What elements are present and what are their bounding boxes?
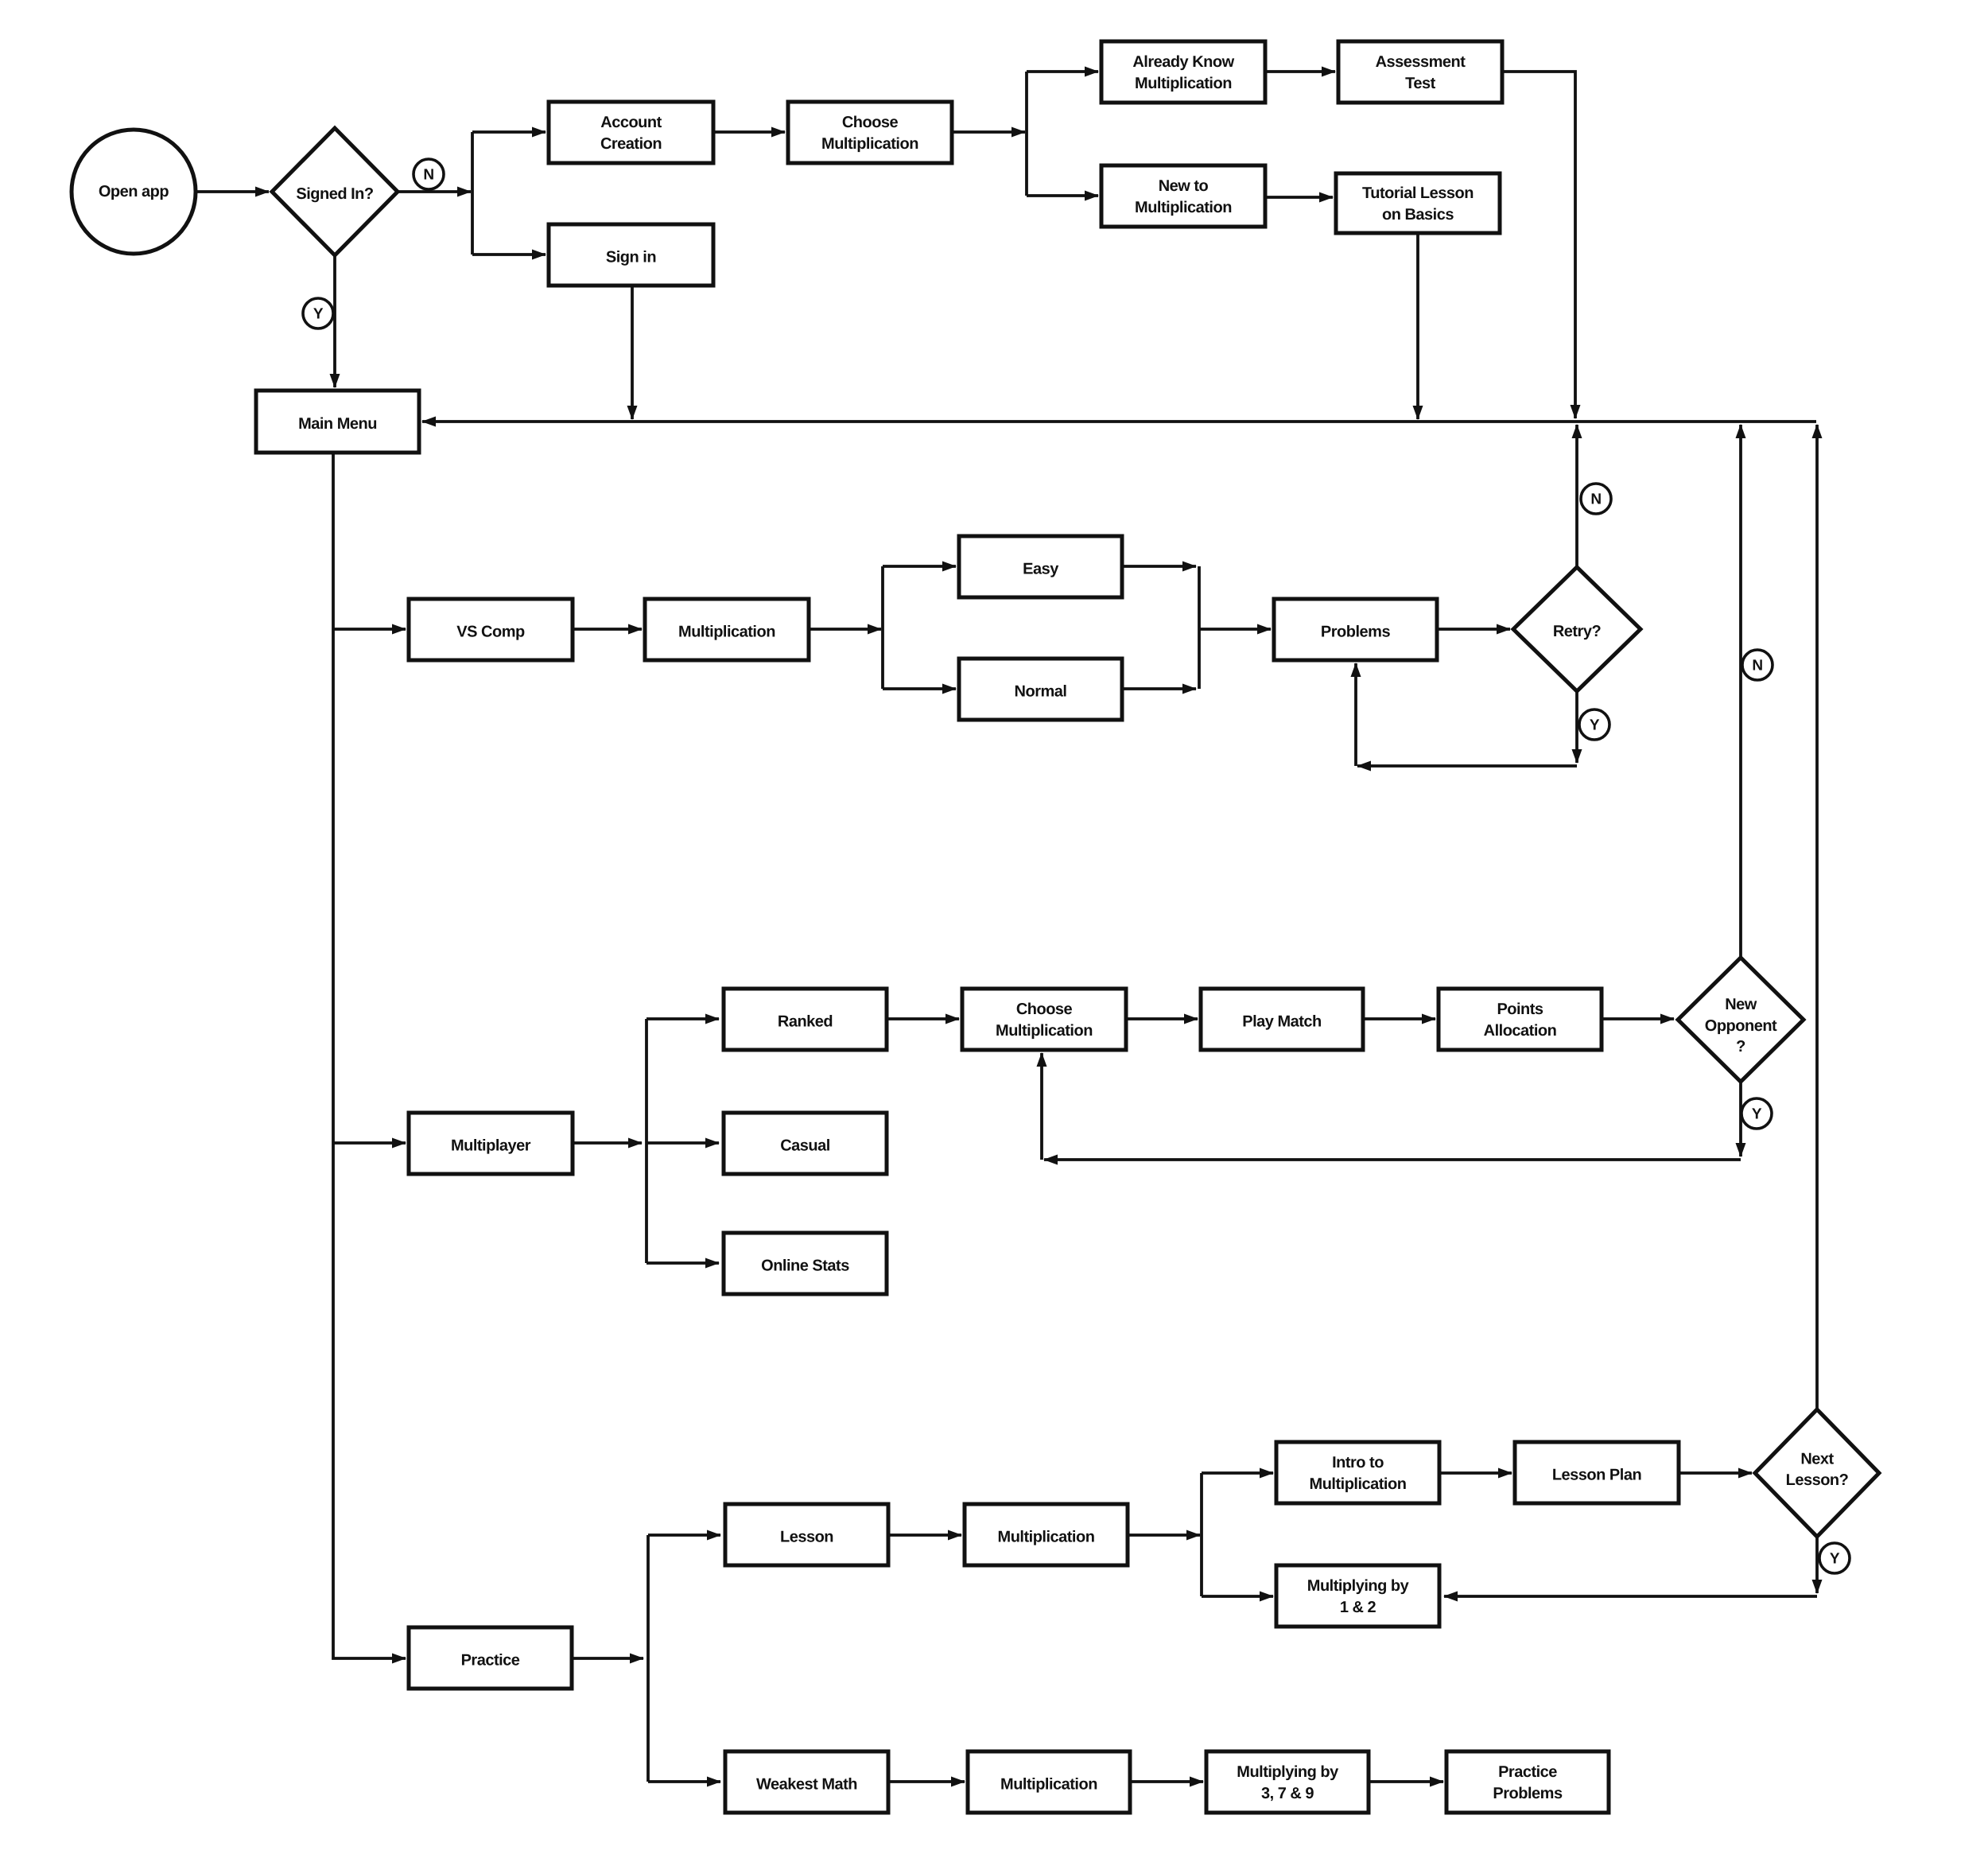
- process: Choose Multiplication (multiplayer): [962, 989, 1126, 1050]
- wire: split to Weakest Math: [648, 1780, 720, 1783]
- wire: main return rail into Main Menu: [422, 420, 1816, 423]
- svg-text:Intro to: Intro to: [1332, 1454, 1384, 1471]
- svg-text:Sign in: Sign in: [606, 249, 656, 266]
- svg-text:Practice: Practice: [461, 1652, 520, 1669]
- process: Multiplication (VS Comp row): [645, 599, 809, 660]
- svg-text:Allocation: Allocation: [1484, 1022, 1557, 1040]
- wire: split to Easy: [883, 565, 956, 568]
- svg-text:Already Know: Already Know: [1132, 53, 1234, 71]
- wire: Multiplication to difficulty split: [809, 628, 881, 631]
- wire: join to Problems: [1199, 628, 1271, 631]
- svg-text:Points: Points: [1497, 1001, 1543, 1018]
- wire: split to Ranked: [646, 1017, 719, 1020]
- svg-text:Choose: Choose: [1016, 1001, 1073, 1018]
- process: Practice Problems: [1446, 1751, 1609, 1813]
- label Y on Next Lesson? yes-branch: [1819, 1543, 1850, 1573]
- svg-text:Multiplication: Multiplication: [996, 1022, 1093, 1040]
- wire: Intro to Lesson Plan: [1439, 1471, 1512, 1475]
- wire: split vertical (account/sign-in): [471, 132, 474, 255]
- wire: New Opponent? N up to main rail: [1739, 425, 1742, 958]
- wire: Sign in down to main rail: [631, 286, 634, 419]
- process: Multiplication (weakest row): [968, 1751, 1130, 1813]
- wire: New Opponent? Y down from diamond: [1739, 1082, 1742, 1156]
- svg-text:Lesson?: Lesson?: [1786, 1471, 1849, 1489]
- label Y on New Opponent? yes-branch: [1741, 1098, 1772, 1129]
- wire: trunk to Multiplayer: [333, 1141, 406, 1145]
- wire: Easy to join: [1122, 565, 1196, 568]
- process: Multiplying by 3, 7 & 9: [1206, 1751, 1369, 1813]
- decision D4: Next Lesson?: [1755, 1409, 1879, 1537]
- wire: Multiplication to lesson split: [1128, 1533, 1200, 1537]
- process: Play Match: [1201, 989, 1363, 1050]
- wire: Retry? Y down from diamond: [1575, 691, 1578, 763]
- wire: lesson split vertical: [1200, 1473, 1203, 1596]
- wire: Multiplying 3,7,9 to Practice Problems: [1369, 1780, 1443, 1783]
- process: Multiplying by 1 & 2: [1276, 1565, 1439, 1627]
- wire: Main Menu trunk down with corner to Practice: [333, 453, 406, 1658]
- wire: split to Account Creation: [472, 130, 546, 134]
- label Y on Signed In? yes-branch: [303, 298, 333, 328]
- svg-text:Casual: Casual: [780, 1137, 830, 1155]
- svg-text:Play Match: Play Match: [1242, 1013, 1321, 1031]
- process: Sign in: [549, 224, 713, 286]
- svg-text:Problems: Problems: [1321, 624, 1391, 641]
- process: Already Know Multiplication: [1101, 41, 1265, 103]
- wire: split to Casual: [646, 1141, 719, 1145]
- wire: Lesson to Multiplication: [888, 1533, 961, 1537]
- wire: mode split vertical: [645, 1019, 648, 1263]
- process: Lesson: [725, 1504, 888, 1565]
- svg-text:Signed In?: Signed In?: [296, 185, 374, 203]
- svg-text:Main Menu: Main Menu: [298, 415, 377, 433]
- process: Normal: [959, 659, 1122, 720]
- wire: Weakest Math to Multiplication: [888, 1780, 965, 1783]
- svg-text:Multiplication: Multiplication: [1310, 1475, 1407, 1493]
- process: Multiplication (lesson row): [965, 1504, 1128, 1565]
- label Y on Retry? yes-branch: [1579, 709, 1609, 740]
- svg-text:Multiplication: Multiplication: [1135, 199, 1232, 216]
- svg-text:Ranked: Ranked: [778, 1013, 833, 1031]
- svg-text:Problems: Problems: [1493, 1785, 1563, 1802]
- wire: Next Lesson? Y down from diamond: [1815, 1537, 1819, 1593]
- svg-text:Test: Test: [1405, 75, 1435, 92]
- svg-text:New: New: [1725, 996, 1757, 1013]
- process: Main Menu: [256, 391, 419, 453]
- wire: split to Online Stats: [646, 1261, 719, 1265]
- svg-text:3, 7 & 9: 3, 7 & 9: [1261, 1785, 1314, 1802]
- wire: trunk to VS Comp: [333, 628, 406, 631]
- wire: Practice to practice split: [572, 1657, 643, 1660]
- wire: Multiplication to Multiplying by 3,7,9: [1130, 1780, 1203, 1783]
- process: Account Creation: [549, 102, 713, 163]
- svg-text:Practice: Practice: [1498, 1763, 1557, 1781]
- wire: VS Comp to Multiplication: [573, 628, 642, 631]
- process: Weakest Math: [725, 1751, 888, 1813]
- svg-text:Choose: Choose: [842, 114, 899, 131]
- wire: Choose Multiplication to Play Match: [1126, 1017, 1198, 1020]
- process: Points Allocation: [1439, 989, 1602, 1050]
- wire: Play Match to Points Allocation: [1363, 1017, 1435, 1020]
- wire: split to Lesson: [648, 1533, 720, 1537]
- svg-text:Multiplication: Multiplication: [1135, 75, 1232, 92]
- wire: split vertical (already/new): [1025, 72, 1028, 196]
- process: Problems: [1274, 599, 1437, 660]
- svg-text:Weakest Math: Weakest Math: [756, 1776, 857, 1794]
- label N on Retry? no-branch: [1581, 484, 1611, 514]
- wire: Open app to Signed In?: [196, 190, 269, 193]
- wire: Tutorial Lesson down to main rail: [1416, 233, 1419, 419]
- svg-text:Multiplayer: Multiplayer: [451, 1137, 531, 1155]
- wire: Account Creation to Choose Multiplication: [713, 130, 785, 134]
- svg-text:Lesson: Lesson: [780, 1529, 833, 1546]
- process: Easy: [959, 536, 1122, 597]
- wire: join vertical: [1198, 566, 1201, 689]
- process: Multiplayer: [409, 1113, 573, 1174]
- wire: difficulty split vertical: [881, 566, 884, 689]
- process: Intro to Multiplication: [1276, 1442, 1439, 1503]
- svg-text:Multiplying by: Multiplying by: [1237, 1763, 1339, 1781]
- process: Practice: [409, 1627, 572, 1689]
- svg-text:Tutorial Lesson: Tutorial Lesson: [1362, 185, 1474, 202]
- wire: Choose Multiplication to split: [952, 130, 1025, 134]
- wire: split to Intro to Multiplication: [1202, 1471, 1273, 1475]
- svg-text:N: N: [423, 167, 433, 184]
- wire: Lesson Plan to Next Lesson?: [1679, 1471, 1752, 1475]
- wire: Next Lesson? N up to main rail end: [1815, 425, 1819, 1409]
- wire: feedback up into Choose Multiplication: [1040, 1053, 1043, 1160]
- process: Casual: [724, 1113, 887, 1174]
- wire: practice split vertical: [646, 1535, 650, 1782]
- svg-text:Opponent: Opponent: [1705, 1017, 1777, 1035]
- svg-text:Lesson Plan: Lesson Plan: [1552, 1467, 1641, 1484]
- svg-text:Multiplication: Multiplication: [1000, 1776, 1097, 1794]
- process: VS Comp: [409, 599, 573, 660]
- process: Choose Multiplication (top): [788, 102, 952, 163]
- svg-text:Multiplication: Multiplication: [678, 624, 775, 641]
- process: Online Stats: [724, 1233, 887, 1294]
- process: Assessment Test: [1338, 41, 1502, 103]
- svg-text:N: N: [1590, 492, 1601, 508]
- svg-text:Online Stats: Online Stats: [761, 1257, 849, 1275]
- wire: feedback up into Problems: [1354, 663, 1357, 766]
- svg-text:on Basics: on Basics: [1382, 206, 1454, 224]
- wire: split to Multiplying by 1 & 2: [1202, 1595, 1273, 1598]
- svg-text:New to: New to: [1159, 177, 1209, 195]
- label N on New Opponent? no-branch: [1742, 650, 1773, 680]
- wire: New to Multiplication to Tutorial Lesson: [1265, 196, 1333, 199]
- svg-text:Multiplying by: Multiplying by: [1307, 1577, 1410, 1595]
- wire: split to Normal: [883, 687, 956, 690]
- svg-text:N: N: [1752, 658, 1762, 674]
- svg-text:Next: Next: [1800, 1451, 1834, 1468]
- wire: New Opponent? Y feedback left: [1044, 1158, 1741, 1161]
- wire: Assessment Test down to main rail: [1502, 72, 1575, 418]
- process: Ranked: [724, 989, 887, 1050]
- decision D3: New Opponent?: [1678, 958, 1804, 1082]
- decision D1: Signed In?: [272, 128, 398, 255]
- wire: Signed In? N branch to split: [398, 190, 471, 193]
- svg-text:Assessment: Assessment: [1376, 53, 1466, 71]
- wire: Already Know to Assessment Test: [1265, 70, 1335, 73]
- svg-text:Creation: Creation: [600, 135, 662, 153]
- wire: split to Already Know Multiplication: [1027, 70, 1098, 73]
- svg-text:Multiplication: Multiplication: [821, 135, 918, 153]
- wire: Retry? N up to main rail: [1575, 425, 1578, 567]
- wire: Points Allocation to New Opponent?: [1602, 1017, 1674, 1020]
- wire: split to Sign in: [472, 253, 546, 256]
- process: New to Multiplication: [1101, 165, 1265, 227]
- wire: Problems to Retry?: [1437, 628, 1510, 631]
- process: Tutorial Lesson on Basics: [1336, 173, 1500, 233]
- wire: Signed In? Y branch down to Main Menu: [333, 255, 336, 387]
- svg-text:?: ?: [1736, 1038, 1745, 1055]
- svg-text:Y: Y: [1830, 1551, 1840, 1568]
- process: Lesson Plan: [1515, 1442, 1679, 1503]
- wire: Retry? Y feedback to below Problems: [1357, 764, 1577, 768]
- svg-text:Normal: Normal: [1015, 683, 1067, 701]
- svg-text:VS Comp: VS Comp: [456, 624, 525, 641]
- svg-text:Y: Y: [313, 306, 324, 323]
- svg-text:Open app: Open app: [99, 183, 169, 200]
- wire: split to New to Multiplication: [1027, 194, 1098, 197]
- start terminal: Open app: [72, 130, 196, 254]
- svg-text:Account: Account: [600, 114, 662, 131]
- wire: Next Lesson? Y to Multiplying by 1 & 2: [1444, 1595, 1817, 1598]
- svg-text:Multiplication: Multiplication: [998, 1529, 1095, 1546]
- decision D2: Retry?: [1513, 567, 1640, 691]
- label N on Signed In? no-branch: [414, 159, 444, 189]
- svg-text:1 & 2: 1 & 2: [1340, 1599, 1376, 1616]
- svg-text:Y: Y: [1752, 1106, 1762, 1123]
- wire: Ranked to Choose Multiplication: [887, 1017, 959, 1020]
- wire: Normal to join: [1122, 687, 1196, 690]
- svg-text:Easy: Easy: [1023, 561, 1059, 578]
- svg-text:Y: Y: [1590, 717, 1600, 734]
- wire: Multiplayer to mode split: [573, 1141, 642, 1145]
- svg-text:Retry?: Retry?: [1553, 623, 1602, 640]
